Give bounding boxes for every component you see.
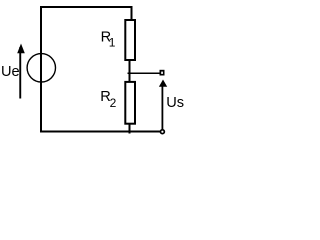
wire left rail	[40, 6, 42, 133]
terminal top (output +)	[160, 70, 165, 76]
wire R2 bottom to bottom rail	[129, 125, 131, 134]
wire top rail	[40, 6, 132, 8]
arrow Us line	[162, 85, 164, 130]
wire top-right drop to R1	[131, 6, 133, 20]
resistor R2	[124, 81, 136, 125]
svg-text:Us: Us	[166, 95, 184, 111]
svg-text:Ue: Ue	[1, 64, 20, 80]
arrow Us head	[159, 80, 167, 87]
voltage source U1 circle	[27, 54, 55, 82]
arrow Ue head	[17, 44, 25, 54]
wire bottom rail	[40, 131, 160, 133]
svg-text:1: 1	[109, 36, 116, 50]
svg-text:2: 2	[110, 96, 117, 110]
terminal bottom (output -)	[160, 130, 164, 134]
resistor R1	[124, 19, 136, 61]
arrow Ue line	[19, 47, 21, 99]
wire junction to output terminal	[127, 73, 160, 75]
wire R1 bottom to R2 top	[129, 61, 131, 82]
